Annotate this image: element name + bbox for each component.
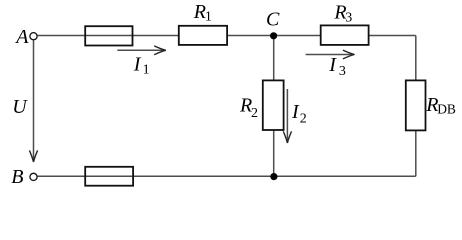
wire bottom (B to right corner) — [37, 175, 416, 177]
wire top (A to right corner) — [37, 35, 416, 37]
svg-text:2: 2 — [251, 106, 258, 121]
svg-text:I: I — [328, 54, 337, 76]
label RDB — [425, 94, 456, 116]
terminal B — [30, 173, 37, 180]
svg-text:DB: DB — [437, 101, 456, 116]
svg-text:A: A — [14, 26, 29, 48]
resistor R3 — [321, 25, 369, 45]
wire right vertical — [415, 36, 417, 177]
svg-text:3: 3 — [339, 64, 346, 79]
label I2 — [291, 101, 307, 127]
junction C (dot) — [270, 32, 277, 39]
svg-text:C: C — [266, 9, 280, 31]
svg-text:I: I — [291, 101, 300, 123]
label I3 — [328, 54, 346, 79]
svg-text:1: 1 — [205, 10, 212, 25]
svg-text:B: B — [11, 166, 23, 188]
label R1 — [193, 1, 212, 25]
svg-text:I: I — [133, 53, 142, 75]
current arrow I1 — [117, 46, 166, 55]
resistor (unlabeled, top-left) — [85, 26, 132, 45]
node C label — [266, 9, 280, 31]
svg-text:2: 2 — [300, 112, 307, 127]
label U — [12, 96, 28, 118]
resistor R1 — [179, 26, 227, 45]
current arrow I2 — [283, 89, 291, 143]
wire middle branch (C down to bottom node) — [273, 36, 275, 177]
junction bottom node (dot) — [270, 173, 277, 180]
resistor R2 — [263, 80, 284, 130]
node A label — [14, 26, 29, 48]
svg-text:1: 1 — [143, 63, 150, 78]
resistor RDB — [406, 80, 426, 130]
current arrow I3 — [306, 50, 355, 59]
voltage arrow U (A to B) — [29, 40, 37, 162]
label I1 — [133, 53, 150, 77]
resistor (unlabeled, bottom) — [85, 167, 133, 186]
label R3 — [333, 2, 352, 26]
node B label — [11, 166, 23, 188]
terminal A — [30, 33, 37, 40]
svg-text:U: U — [12, 96, 28, 118]
svg-text:3: 3 — [345, 11, 352, 26]
label R2 — [239, 94, 258, 121]
